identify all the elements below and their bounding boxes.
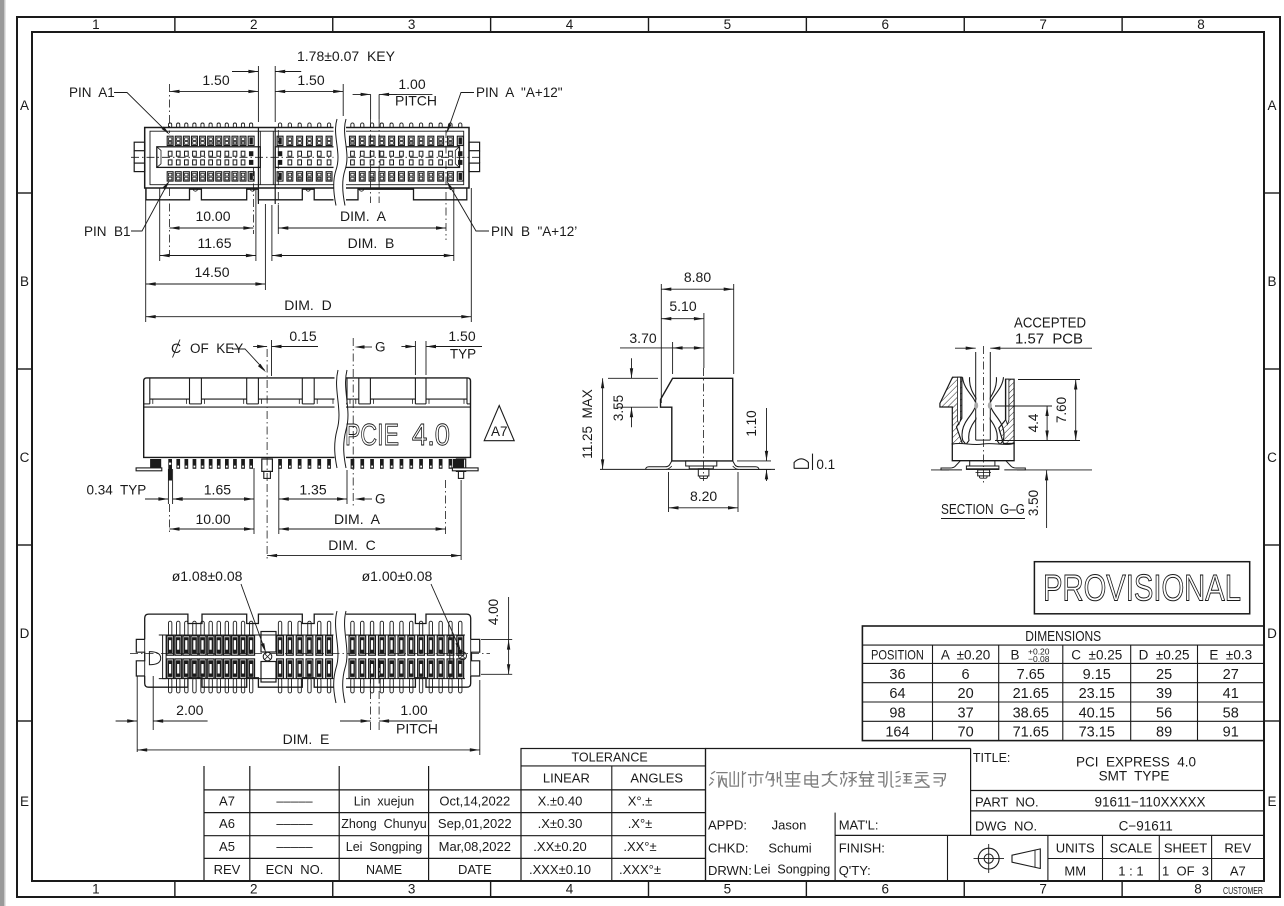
top view upper contact pad row — [167, 136, 463, 145]
svg-text:8.20: 8.20 — [690, 488, 717, 504]
dimension 1.00 PITCH bottom — [340, 660, 438, 737]
svg-text:.XX±0.20: .XX±0.20 — [533, 839, 586, 854]
front view key centerline — [266, 349, 268, 484]
svg-text:8.80: 8.80 — [684, 269, 711, 285]
svg-text:A6: A6 — [219, 816, 235, 831]
svg-text:Mar,08,2022: Mar,08,2022 — [439, 839, 511, 854]
dimension 3.55 — [611, 358, 658, 427]
svg-text:10.00: 10.00 — [195, 511, 230, 527]
section G-G card slot — [976, 352, 991, 440]
svg-text:89: 89 — [1156, 725, 1172, 741]
svg-text:SCALE: SCALE — [1110, 841, 1153, 856]
part number row — [971, 791, 1264, 810]
svg-text:REV: REV — [1224, 841, 1251, 856]
svg-text:PROVISIONAL: PROVISIONAL — [1043, 568, 1241, 609]
svg-text:4: 4 — [566, 882, 574, 897]
svg-text:DIMENSIONS: DIMENSIONS — [1025, 629, 1101, 645]
dimension DIM. A front view — [279, 480, 446, 534]
side view body outline — [661, 378, 733, 461]
svg-text:98: 98 — [889, 705, 905, 721]
front view PCIE 4.0 marking — [345, 417, 450, 452]
svg-text:1.50: 1.50 — [297, 72, 324, 88]
svg-text:C: C — [1267, 450, 1277, 465]
svg-text:D: D — [1267, 626, 1277, 641]
dimension 1.50 TYP slot — [401, 328, 482, 375]
svg-text:7.60: 7.60 — [1054, 397, 1069, 423]
svg-text:X.±0.40: X.±0.40 — [538, 793, 583, 808]
svg-text:PITCH: PITCH — [395, 93, 437, 109]
svg-text:91: 91 — [1223, 725, 1239, 741]
section G-G centerline — [982, 346, 984, 484]
svg-text:SHEET: SHEET — [1164, 841, 1207, 856]
svg-text:1.65: 1.65 — [204, 482, 231, 498]
dimension 8.80 — [661, 269, 733, 403]
svg-text:A ±0.20: A ±0.20 — [941, 648, 990, 663]
svg-text:OF KEY: OF KEY — [190, 341, 243, 356]
svg-text:POSITION: POSITION — [871, 647, 924, 663]
svg-text:39: 39 — [1156, 686, 1172, 702]
svg-text:Oct,14,2022: Oct,14,2022 — [439, 793, 510, 808]
svg-text:C ±0.25: C ±0.25 — [1071, 648, 1122, 663]
svg-text:6: 6 — [882, 17, 890, 32]
label G top — [355, 340, 386, 355]
svg-text:164: 164 — [885, 725, 909, 741]
section G-G left contact spring — [962, 377, 979, 444]
svg-text:7: 7 — [1039, 882, 1047, 897]
svg-text:D: D — [20, 626, 30, 641]
svg-text:8: 8 — [1194, 882, 1202, 897]
svg-text:1.00: 1.00 — [400, 702, 427, 718]
svg-text:E ±0.3: E ±0.3 — [1209, 648, 1252, 663]
svg-text:DIM. E: DIM. E — [283, 731, 330, 747]
svg-text:38.65: 38.65 — [1013, 705, 1049, 721]
svg-text:23.15: 23.15 — [1079, 686, 1115, 702]
svg-text:1: 1 — [92, 882, 100, 897]
svg-text:PIN A "A+12": PIN A "A+12" — [476, 85, 563, 100]
front view solder pins — [176, 459, 462, 469]
dimension DIM. E — [137, 680, 480, 755]
dimension 3.70 — [620, 330, 704, 374]
svg-text:3: 3 — [408, 17, 416, 32]
svg-text:.XXX°±: .XXX°± — [619, 862, 661, 877]
svg-text:G: G — [375, 492, 386, 507]
svg-text:1.10: 1.10 — [744, 410, 759, 436]
svg-text:SECTION G–G: SECTION G–G — [941, 501, 1025, 518]
top view horizontal centerline — [131, 156, 483, 158]
svg-text:A: A — [20, 98, 29, 113]
svg-text:–––––: ––––– — [276, 839, 313, 854]
svg-text:PART NO.: PART NO. — [975, 795, 1039, 810]
svg-text:ø1.08±0.08: ø1.08±0.08 — [172, 568, 243, 584]
svg-text:7.65: 7.65 — [1017, 667, 1045, 683]
svg-text:.XXX±0.10: .XXX±0.10 — [529, 862, 591, 877]
svg-text:1.35: 1.35 — [299, 482, 326, 498]
dimension 2.00 — [116, 676, 208, 752]
dimension 10.00 top view — [170, 168, 254, 256]
third angle projection symbol — [974, 844, 1005, 873]
svg-text:PIN B "A+12’: PIN B "A+12’ — [491, 224, 577, 239]
section G-G left wall hatched — [940, 377, 963, 444]
svg-text:70: 70 — [958, 725, 974, 741]
projection cone symbol — [1012, 849, 1040, 869]
dimension 4.4 — [995, 406, 1080, 441]
svg-text:−0.08: −0.08 — [1028, 654, 1050, 664]
label G bottom — [355, 492, 386, 507]
leader PIN A A+12 — [447, 85, 563, 134]
svg-text:20: 20 — [958, 686, 974, 702]
company name Chinese text — [710, 772, 946, 788]
dimension ACCEPTED 1.57 PCB — [955, 316, 1092, 350]
dimensions table — [862, 626, 1264, 741]
dimension 11.25 MAX — [580, 378, 658, 469]
svg-text:8: 8 — [1197, 17, 1205, 32]
svg-text:MM: MM — [1064, 864, 1086, 879]
svg-text:–––––: ––––– — [276, 816, 313, 831]
svg-text:DIM. C: DIM. C — [328, 537, 375, 553]
svg-text:56: 56 — [1156, 705, 1172, 721]
svg-text:ø1.00±0.08: ø1.00±0.08 — [362, 568, 433, 584]
revision triangle A7 — [484, 406, 514, 441]
dimension 8.20 — [669, 472, 739, 512]
bottom view contact band rails — [159, 635, 465, 679]
PROVISIONAL stamp box — [1034, 562, 1249, 614]
svg-text:TOLERANCE: TOLERANCE — [572, 751, 648, 765]
leader PIN A1 — [69, 85, 170, 135]
svg-text:ECN NO.: ECN NO. — [266, 862, 324, 877]
svg-text:5.10: 5.10 — [669, 298, 696, 314]
svg-text:Lei Songping: Lei Songping — [346, 840, 423, 854]
svg-text:1 : 1: 1 : 1 — [1118, 864, 1143, 879]
svg-text:3.70: 3.70 — [629, 330, 656, 346]
svg-text:ACCEPTED: ACCEPTED — [1014, 316, 1086, 332]
svg-text:4.00: 4.00 — [486, 599, 501, 625]
svg-text:11.65: 11.65 — [198, 235, 232, 251]
svg-text:B: B — [20, 274, 29, 289]
svg-text:A7: A7 — [219, 793, 235, 808]
svg-text:27: 27 — [1223, 667, 1239, 683]
top view center slot right segment — [275, 147, 459, 168]
front view right end post — [456, 459, 465, 478]
title box — [971, 749, 1196, 836]
dimension 4.00 — [481, 597, 512, 674]
dimension 1.50 right — [275, 72, 343, 116]
section G-G feet — [931, 461, 1092, 470]
dimension 1.00 PITCH — [353, 76, 437, 203]
svg-text:TYP: TYP — [450, 347, 476, 362]
front view key post — [262, 459, 273, 478]
dimension 0.34 TYP — [87, 469, 189, 504]
leader diameter 1.00 — [362, 568, 461, 652]
svg-text:DIM. B: DIM. B — [348, 235, 395, 251]
svg-text:0.34 TYP: 0.34 TYP — [87, 483, 147, 498]
svg-text:Zhong Chunyu: Zhong Chunyu — [341, 817, 427, 831]
svg-text:1.78±0.07 KEY: 1.78±0.07 KEY — [297, 48, 396, 64]
svg-text:3.50: 3.50 — [1026, 490, 1041, 516]
svg-text:Q'TY:: Q'TY: — [839, 863, 871, 878]
bottom view right end hole — [459, 652, 467, 660]
front view left SMT foot — [136, 459, 162, 471]
bottom view body outline — [145, 614, 471, 687]
dimension 1.65 — [173, 468, 254, 534]
svg-text:MAT'L:: MAT'L: — [839, 818, 879, 833]
dimension DIM. C — [267, 480, 461, 560]
svg-text:.X°±: .X°± — [628, 816, 653, 831]
svg-text:B: B — [1010, 648, 1019, 663]
svg-text:REV: REV — [214, 862, 241, 877]
svg-text:A5: A5 — [219, 839, 235, 854]
svg-text:Jason: Jason — [772, 818, 807, 833]
dimension 1.50 left — [170, 72, 259, 133]
svg-text:10.00: 10.00 — [195, 208, 230, 224]
top view connector body — [145, 128, 469, 189]
front view break lines — [335, 370, 348, 468]
top view break lines — [334, 119, 347, 206]
svg-text:41: 41 — [1223, 686, 1239, 702]
section G-G pedestal and peg — [966, 461, 999, 479]
svg-text:4: 4 — [566, 17, 574, 32]
bottom right info grid — [835, 835, 1264, 881]
section line G vertical — [352, 338, 354, 507]
svg-text:DIM. D: DIM. D — [284, 297, 331, 313]
top view slot contact holes — [168, 151, 462, 165]
svg-text:2.00: 2.00 — [176, 702, 203, 718]
svg-text:CUSTOMER: CUSTOMER — [1223, 886, 1263, 897]
svg-text:C: C — [20, 450, 30, 465]
svg-text:DWG NO.: DWG NO. — [975, 819, 1037, 834]
dimension 11.65 — [160, 188, 256, 261]
svg-text:A7: A7 — [1230, 864, 1246, 879]
section G-G right contact spring — [987, 377, 1004, 444]
revision history table — [204, 766, 706, 881]
svg-text:DATE: DATE — [458, 862, 492, 877]
front view body — [144, 378, 471, 458]
svg-text:5: 5 — [724, 17, 732, 32]
svg-text:6: 6 — [882, 882, 890, 897]
svg-text:0.1: 0.1 — [816, 457, 835, 472]
svg-text:71.65: 71.65 — [1013, 725, 1049, 741]
bottom view centerline — [130, 653, 490, 655]
section G-G contact point marks — [974, 402, 992, 409]
top view mounting tabs — [134, 142, 479, 171]
svg-text:CHKD:: CHKD: — [708, 841, 748, 856]
svg-text:NAME: NAME — [366, 863, 402, 877]
leader PIN B1 — [84, 181, 170, 240]
svg-text:PITCH: PITCH — [396, 721, 438, 737]
svg-text:PIN B1: PIN B1 — [84, 224, 131, 239]
svg-text:73.15: 73.15 — [1079, 725, 1115, 741]
svg-text:D ±0.25: D ±0.25 — [1139, 648, 1190, 663]
svg-text:40.15: 40.15 — [1079, 705, 1115, 721]
svg-text:X°.±: X°.± — [628, 793, 653, 808]
bottom view key post — [261, 611, 334, 682]
svg-text:PCI EXPRESS 4.0: PCI EXPRESS 4.0 — [1076, 755, 1196, 770]
bottom view left end fitting — [136, 639, 160, 676]
bottom view right end fitting — [471, 639, 480, 676]
svg-text:91611−110XXXXX: 91611−110XXXXX — [1095, 795, 1206, 810]
svg-text:1.57 PCB: 1.57 PCB — [1015, 332, 1083, 348]
front view pin A1 long post — [168, 459, 172, 481]
svg-text:TITLE:: TITLE: — [973, 751, 1011, 765]
dimension DIM. D — [146, 188, 472, 322]
svg-text:DRWN:: DRWN: — [708, 863, 752, 878]
svg-text:1.50: 1.50 — [202, 72, 229, 88]
front view castellation blocks — [144, 378, 471, 404]
svg-text:.X±0.30: .X±0.30 — [538, 816, 583, 831]
dimension 3.50 — [1026, 470, 1048, 528]
front view right SMT foot — [452, 459, 478, 471]
svg-text:0.15: 0.15 — [289, 328, 316, 344]
bottom view break lines — [334, 611, 347, 703]
section G-G label — [941, 501, 1025, 519]
svg-text:LINEAR: LINEAR — [543, 771, 590, 786]
top view key slot walls — [258, 128, 275, 205]
svg-text:25: 25 — [1156, 667, 1172, 683]
svg-text:Lin xuejun: Lin xuejun — [354, 794, 415, 808]
svg-text:.XX°±: .XX°± — [623, 839, 656, 854]
dimension DIM. B — [272, 188, 454, 261]
svg-text:APPD:: APPD: — [708, 818, 747, 833]
svg-text:G: G — [375, 340, 386, 355]
svg-text:2: 2 — [250, 17, 258, 32]
company name box — [706, 749, 971, 882]
svg-text:Schumi: Schumi — [768, 841, 811, 856]
tolerance table — [521, 749, 706, 882]
svg-text:3.55: 3.55 — [611, 395, 626, 421]
svg-text:3: 3 — [408, 882, 416, 897]
leader diameter 1.08 — [172, 568, 266, 653]
svg-text:4.4: 4.4 — [1026, 413, 1041, 432]
svg-text:PIN A1: PIN A1 — [69, 85, 115, 100]
svg-text:C−91611: C−91611 — [1119, 819, 1173, 834]
svg-text:DIM. A: DIM. A — [334, 511, 381, 527]
dimension 7.60 — [1018, 380, 1080, 441]
svg-text:4.0: 4.0 — [412, 417, 450, 452]
top view center slot left segment — [157, 147, 260, 168]
svg-text:1: 1 — [92, 17, 100, 32]
top view pin tail loops — [169, 123, 462, 128]
top view lower contact pad row — [167, 172, 463, 181]
side view centerline — [703, 368, 705, 481]
centerline of key label — [171, 340, 266, 373]
dimension 14.50 — [146, 188, 266, 322]
flatness tolerance symbol D 0.1 — [794, 454, 835, 472]
svg-text:UNITS: UNITS — [1056, 841, 1095, 856]
svg-text:SMT TYPE: SMT TYPE — [1099, 769, 1170, 784]
dimension 1.78±0.07 KEY — [232, 48, 396, 122]
dimension 0.15 — [253, 328, 318, 376]
svg-text:21.65: 21.65 — [1013, 686, 1049, 702]
side view PCB line — [600, 468, 775, 470]
svg-text:36: 36 — [889, 667, 905, 683]
svg-text:7: 7 — [1039, 17, 1047, 32]
side view right foot — [733, 461, 759, 470]
dimension DIM. A top view — [278, 130, 446, 240]
svg-text:1 OF 3: 1 OF 3 — [1162, 864, 1209, 879]
dimension 1.35 — [279, 468, 347, 534]
approval rows — [708, 813, 885, 881]
svg-text:ANGLES: ANGLES — [630, 771, 683, 786]
bottom view contact cells — [167, 621, 464, 693]
svg-text:1.00: 1.00 — [398, 76, 425, 92]
svg-text:Lei Songping: Lei Songping — [754, 863, 831, 877]
svg-text:37: 37 — [958, 705, 974, 721]
svg-text:DIM. A: DIM. A — [340, 208, 387, 224]
svg-text:FINISH:: FINISH: — [839, 841, 885, 856]
svg-text:6: 6 — [962, 667, 970, 683]
side view center pedestal and peg — [686, 461, 717, 479]
section G-G right wall hatched — [999, 379, 1014, 443]
side view left foot — [646, 461, 672, 470]
svg-text:B: B — [1267, 274, 1276, 289]
svg-text:58: 58 — [1223, 705, 1239, 721]
top view bottom skirt — [146, 188, 467, 200]
svg-text:11.25 MAX: 11.25 MAX — [580, 389, 595, 459]
svg-text:1.50: 1.50 — [448, 328, 475, 344]
svg-text:E: E — [1267, 794, 1276, 809]
section G-G molded base — [952, 443, 1014, 461]
svg-text:–––––: ––––– — [276, 793, 313, 808]
svg-text:14.50: 14.50 — [194, 264, 229, 280]
drawing number row — [971, 811, 1264, 834]
svg-text:64: 64 — [889, 686, 905, 702]
svg-text:2: 2 — [250, 882, 258, 897]
leader PIN B A+12 — [447, 181, 578, 239]
dimension 5.10 — [661, 298, 704, 368]
svg-text:9.15: 9.15 — [1083, 667, 1111, 683]
svg-text:Sep,01,2022: Sep,01,2022 — [438, 816, 512, 831]
svg-text:5: 5 — [724, 882, 732, 897]
svg-text:A: A — [1267, 98, 1276, 113]
svg-text:E: E — [20, 794, 29, 809]
svg-text:A7: A7 — [491, 424, 508, 439]
dimension 1.10 — [737, 408, 771, 481]
dimension 10.00 front view — [170, 504, 255, 534]
